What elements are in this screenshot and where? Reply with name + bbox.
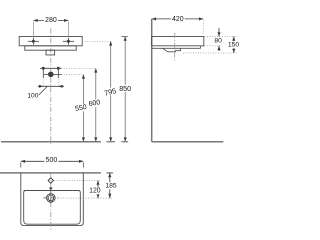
svg-text:185: 185 bbox=[105, 183, 117, 190]
svg-text:550: 550 bbox=[75, 104, 88, 113]
svg-text:120: 120 bbox=[89, 188, 101, 195]
svg-text:100: 100 bbox=[27, 93, 38, 100]
svg-text:420: 420 bbox=[172, 16, 184, 23]
svg-text:600: 600 bbox=[88, 99, 101, 108]
svg-text:80: 80 bbox=[214, 38, 222, 45]
svg-text:500: 500 bbox=[46, 157, 58, 164]
svg-text:280: 280 bbox=[45, 17, 57, 24]
svg-text:850: 850 bbox=[119, 84, 131, 93]
svg-text:150: 150 bbox=[228, 42, 240, 49]
svg-text:795: 795 bbox=[103, 86, 117, 98]
